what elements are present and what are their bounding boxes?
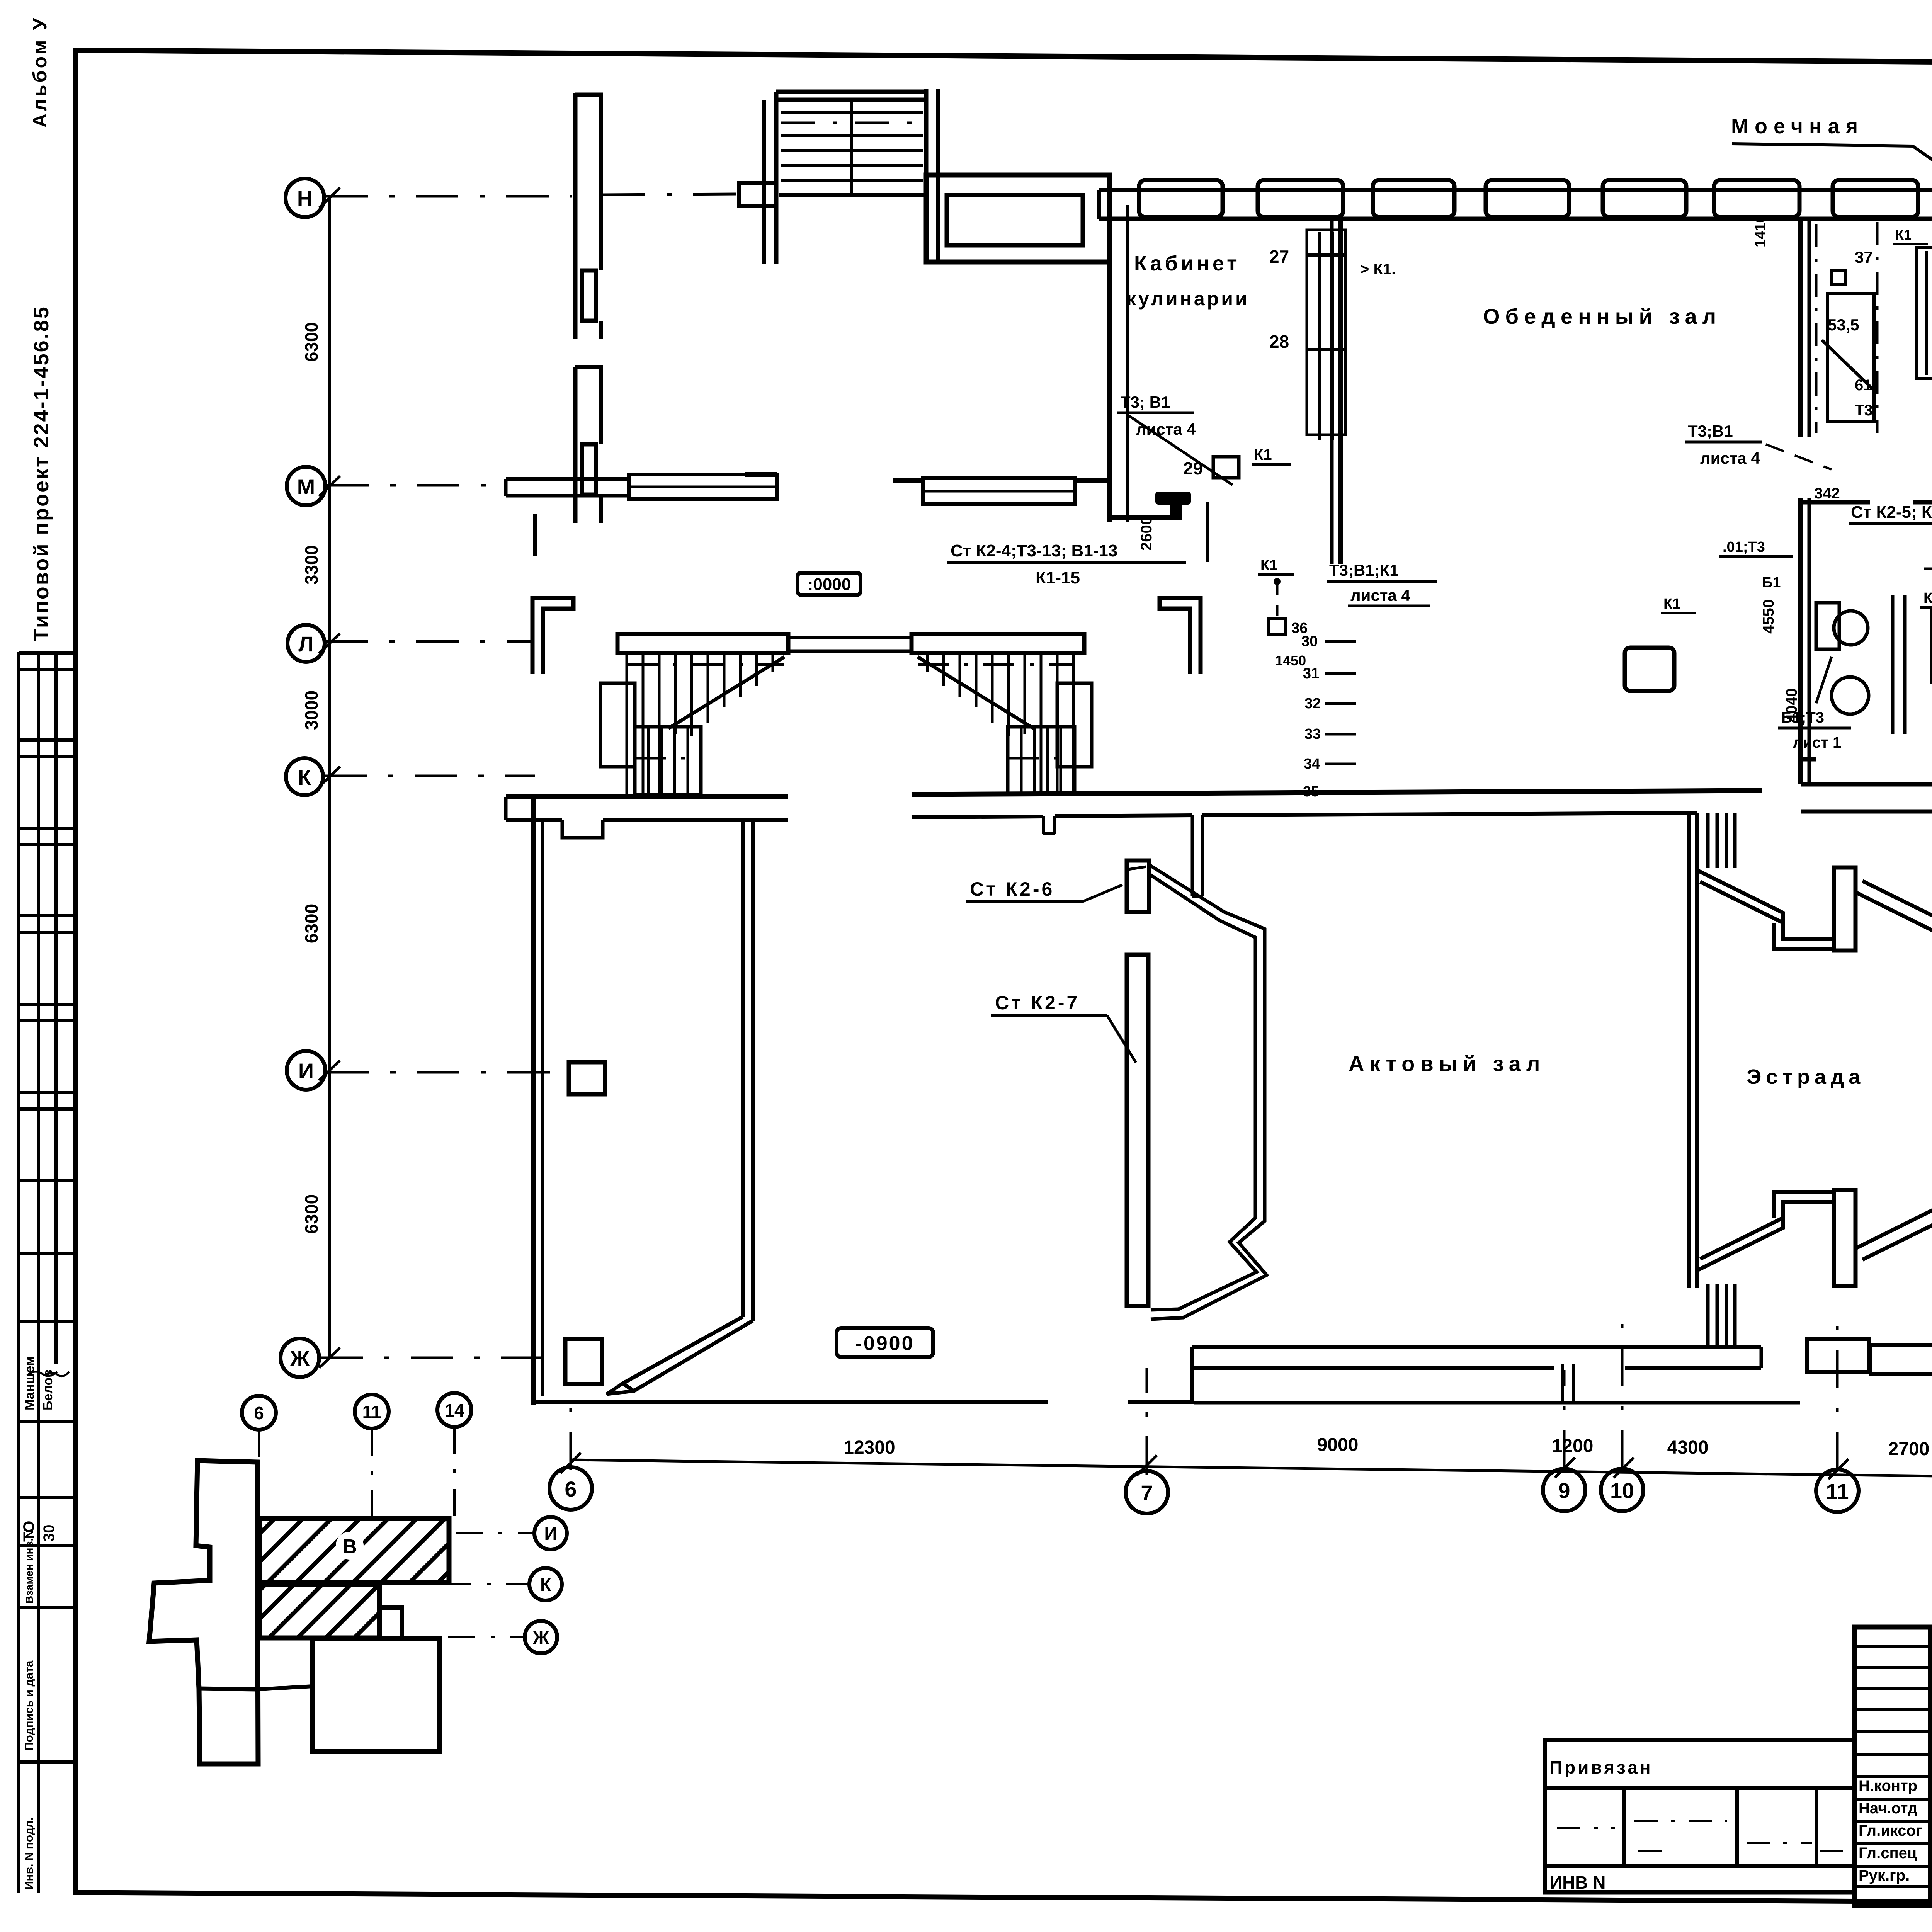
svg-text:3000: 3000 xyxy=(301,690,321,730)
svg-text:К1-15: К1-15 xyxy=(1036,568,1080,587)
svg-text:Н: Н xyxy=(297,186,313,211)
svg-text:29: 29 xyxy=(1183,458,1203,478)
svg-text:К1: К1 xyxy=(1663,596,1680,612)
svg-text:36: 36 xyxy=(1291,620,1308,636)
svg-text:Обеденный зал: Обеденный зал xyxy=(1483,304,1721,328)
svg-text:Б1;Т3: Б1;Т3 xyxy=(1781,709,1824,726)
svg-text:6300: 6300 xyxy=(301,904,321,943)
svg-text:К: К xyxy=(540,1575,551,1595)
svg-text:6300: 6300 xyxy=(301,322,321,362)
svg-text:9000: 9000 xyxy=(1317,1435,1359,1455)
svg-text:342: 342 xyxy=(1814,485,1840,502)
svg-text:Инв. N подл.: Инв. N подл. xyxy=(23,1817,36,1889)
svg-text:28: 28 xyxy=(1269,332,1289,352)
svg-text:Актовый зал: Актовый зал xyxy=(1349,1051,1545,1076)
svg-text:листа 4: листа 4 xyxy=(1136,420,1196,438)
svg-text:И: И xyxy=(298,1059,314,1083)
svg-text:Ст К2-6: Ст К2-6 xyxy=(970,878,1054,900)
svg-text:11: 11 xyxy=(362,1402,381,1422)
svg-text:27: 27 xyxy=(1269,247,1289,267)
svg-text:Гл.иксог: Гл.иксог xyxy=(1859,1822,1922,1839)
svg-text:Кабинет: Кабинет xyxy=(1134,252,1240,275)
svg-text:Гл.спец: Гл.спец xyxy=(1859,1845,1917,1862)
svg-text:Т3; В1: Т3; В1 xyxy=(1121,393,1170,411)
svg-text:32: 32 xyxy=(1304,696,1321,712)
svg-text:30: 30 xyxy=(41,1525,58,1542)
svg-text:6: 6 xyxy=(254,1403,264,1423)
svg-text:4550: 4550 xyxy=(1760,599,1777,634)
svg-text:Взамен инв.N: Взамен инв.N xyxy=(23,1530,35,1604)
svg-text:ИНВ N: ИНВ N xyxy=(1549,1872,1606,1893)
svg-text:М: М xyxy=(297,474,315,499)
svg-text:Подпись и дата: Подпись и дата xyxy=(23,1660,36,1750)
svg-text:Маншем: Маншем xyxy=(22,1356,37,1410)
svg-text:1410: 1410 xyxy=(1752,214,1769,247)
svg-text:Т3;В1: Т3;В1 xyxy=(1688,422,1733,440)
svg-text:Эстрада: Эстрада xyxy=(1747,1065,1865,1088)
svg-text:Альбом У: Альбом У xyxy=(29,16,51,128)
svg-text:Л: Л xyxy=(298,632,313,656)
svg-text:Типовой проект 224-1-456.85: Типовой проект 224-1-456.85 xyxy=(30,305,53,641)
svg-text:9: 9 xyxy=(1558,1478,1570,1503)
svg-text:Ст К2-4;Т3-13; В1-13: Ст К2-4;Т3-13; В1-13 xyxy=(951,541,1117,560)
svg-text:Ст К2-7: Ст К2-7 xyxy=(995,992,1080,1014)
svg-text:12300: 12300 xyxy=(844,1437,895,1458)
svg-text:61: 61 xyxy=(1855,377,1872,394)
svg-text:листа 4: листа 4 xyxy=(1350,586,1410,604)
svg-text:Ж: Ж xyxy=(290,1346,310,1371)
svg-text:14: 14 xyxy=(444,1400,464,1420)
svg-text:Б1: Б1 xyxy=(1762,575,1781,591)
svg-text:Нач.отд: Нач.отд xyxy=(1859,1800,1917,1817)
svg-text::0000: :0000 xyxy=(808,575,851,594)
svg-text:Н.контр: Н.контр xyxy=(1859,1777,1917,1794)
svg-text:2600: 2600 xyxy=(1138,516,1155,551)
svg-text:Ж: Ж xyxy=(532,1628,549,1648)
svg-text:К1: К1 xyxy=(1923,590,1932,606)
svg-text:К1: К1 xyxy=(1260,557,1277,573)
svg-text:лист 1: лист 1 xyxy=(1793,734,1841,751)
svg-text:4300: 4300 xyxy=(1667,1437,1709,1458)
svg-text:1450: 1450 xyxy=(1275,653,1306,668)
svg-text:> К1.: > К1. xyxy=(1360,261,1396,278)
svg-text:.01;Т3: .01;Т3 xyxy=(1723,539,1765,555)
svg-text:кулинарии: кулинарии xyxy=(1126,288,1250,310)
svg-text:Ст К2-5; К1-16;01-14: Ст К2-5; К1-16;01-14 xyxy=(1851,503,1932,522)
svg-text:2700: 2700 xyxy=(1888,1439,1930,1459)
svg-text:В: В xyxy=(342,1536,357,1558)
svg-text:53,5: 53,5 xyxy=(1828,316,1859,334)
svg-text:К: К xyxy=(298,765,311,789)
svg-text:6300: 6300 xyxy=(301,1194,321,1234)
svg-text:34: 34 xyxy=(1304,756,1320,772)
svg-text:3300: 3300 xyxy=(301,545,321,585)
svg-text:Т3: Т3 xyxy=(1855,402,1873,419)
svg-text:И: И xyxy=(544,1524,557,1544)
svg-text:листа 4: листа 4 xyxy=(1700,449,1760,467)
svg-text:37: 37 xyxy=(1855,248,1873,266)
svg-text:Моечная: Моечная xyxy=(1731,115,1864,138)
svg-text:11: 11 xyxy=(1826,1479,1849,1503)
svg-text:К1: К1 xyxy=(1254,446,1272,463)
svg-text:6: 6 xyxy=(565,1477,577,1501)
svg-text:Т3;В1;К1: Т3;В1;К1 xyxy=(1329,561,1399,579)
svg-text:К1: К1 xyxy=(1895,227,1912,243)
svg-text:33: 33 xyxy=(1304,726,1321,742)
svg-text:Рук.гр.: Рук.гр. xyxy=(1859,1867,1910,1884)
svg-text:1200: 1200 xyxy=(1552,1436,1594,1456)
svg-text:Привязан: Привязан xyxy=(1549,1757,1653,1777)
svg-text:7: 7 xyxy=(1141,1481,1153,1505)
svg-text:10: 10 xyxy=(1610,1478,1634,1503)
svg-text:35: 35 xyxy=(1303,784,1319,800)
svg-text:-0900: -0900 xyxy=(855,1332,915,1355)
